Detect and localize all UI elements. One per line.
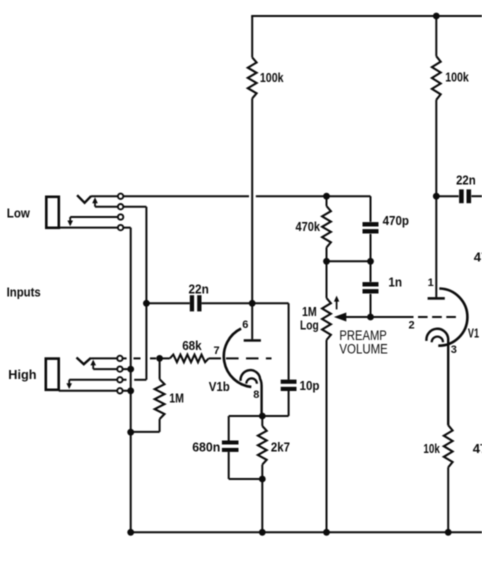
tube V1b plate (244, 303, 261, 341)
svg-text:470n: 470n (473, 441, 482, 456)
pin 3 label V1 cathode (451, 344, 457, 356)
potentiometer VR 1M Log (300, 261, 331, 532)
label V1 (468, 326, 479, 341)
svg-text:22n: 22n (189, 282, 209, 297)
svg-text:Log: Log (300, 318, 319, 333)
label V1b (209, 379, 230, 394)
wire 22n to 10p branch (252, 302, 288, 304)
pin 6 label V1b plate (242, 319, 248, 331)
capacitor C 10p (281, 303, 320, 416)
svg-text:1: 1 (428, 277, 434, 289)
svg-text:VOLUME: VOLUME (339, 342, 387, 357)
svg-text:Low: Low (7, 205, 31, 220)
node tone mid left (323, 258, 330, 265)
wire top HT rail (251, 15, 482, 17)
node ground-High ring (127, 366, 134, 373)
jack J2 switch arrow up (90, 360, 96, 370)
capacitor C 680n (cathode bypass) (192, 416, 262, 479)
svg-text:Inputs: Inputs (7, 285, 41, 300)
svg-text:470k: 470k (474, 250, 482, 265)
node grid junction (156, 355, 163, 362)
node ground-High sleeve (127, 387, 134, 394)
node 10k ground rail (445, 529, 452, 536)
wire cathode to ground (261, 479, 263, 532)
tube V1 envelope (438, 289, 467, 346)
terminal J1 ring (118, 204, 123, 209)
capacitor C 470p (363, 196, 410, 261)
svg-text:22n: 22n (456, 173, 476, 188)
terminal J2 ring (117, 366, 122, 371)
svg-text:3: 3 (451, 344, 457, 356)
tube V1b envelope (224, 329, 251, 387)
svg-text:V1: V1 (468, 326, 479, 341)
resistor R 10k (V1 cathode) (423, 425, 452, 532)
svg-text:68k: 68k (182, 338, 202, 353)
node HT junction (433, 13, 440, 20)
wire J1 contact3 lead (70, 216, 118, 218)
tube V1b cathode (241, 370, 262, 416)
node ground-1M return (127, 429, 134, 436)
wire J1 sleeve lead (59, 227, 131, 229)
label 470n clipped (473, 441, 482, 456)
tube V1 cathode (426, 329, 448, 425)
label Low (7, 205, 31, 220)
svg-text:470p: 470p (383, 213, 409, 228)
svg-text:High: High (8, 367, 36, 382)
node cathode ground rail (259, 529, 266, 536)
jack J2 High body (46, 359, 59, 390)
wire dashed High tip link (123, 357, 156, 359)
node tone mid right (367, 258, 374, 265)
terminal J2 sleeve (117, 388, 122, 393)
jack J1 Low body (46, 197, 59, 228)
node 470k top (323, 193, 330, 200)
resistor R 2k7 (cathode bias) (258, 416, 290, 479)
capacitor C 22n (left coupling) (146, 282, 252, 312)
label 470k clipped (474, 250, 482, 265)
terminal J1 sleeve (118, 225, 123, 230)
svg-text:100k: 100k (260, 70, 284, 85)
label VOLUME (339, 342, 387, 357)
wire J2 sleeve lead (59, 390, 131, 392)
svg-text:100k: 100k (445, 70, 469, 85)
jack J1 tip contact (77, 195, 91, 203)
resistor R 100k (left anode load) (248, 16, 284, 303)
node wiper-1n junction (367, 314, 374, 321)
jack J2 switch arrow down (66, 380, 72, 389)
wire ground bus (130, 228, 132, 533)
wire J2 ring lead (93, 368, 131, 370)
label Inputs (7, 285, 41, 300)
svg-text:6: 6 (242, 319, 248, 331)
terminal J1 tip (118, 194, 123, 199)
wire tone mid link (327, 260, 371, 262)
wire J1 tip lead (91, 195, 118, 197)
resistor R 100k (right anode load) (432, 16, 470, 196)
node ground-bottom rail (127, 529, 134, 536)
tube V1 plate (428, 196, 445, 300)
potentiometer wiper arrow (334, 313, 414, 322)
jack J1 switch arrow up (92, 197, 98, 206)
wire V1 grid dashes (418, 316, 456, 318)
tube V1b grid dashes (226, 357, 272, 359)
pin 1 label V1 plate (428, 277, 434, 289)
wire J1 ring lead (95, 206, 146, 208)
node pot ground rail (323, 529, 330, 536)
resistor R 470k (296, 196, 331, 261)
node V1 anode junction (433, 193, 440, 200)
svg-text:10k: 10k (423, 441, 440, 456)
resistor R 68k (grid stopper) (160, 338, 221, 362)
pin 2 label V1 grid (409, 320, 415, 332)
svg-text:8: 8 (253, 389, 259, 401)
capacitor C 22n (right coupling) (436, 173, 482, 204)
resistor R 1M (input grid leak) (131, 358, 184, 432)
svg-text:10p: 10p (300, 378, 320, 393)
svg-text:1n: 1n (388, 274, 402, 289)
svg-text:V1b: V1b (209, 379, 230, 394)
jack J1 switch arrow down (67, 217, 73, 226)
pin 7 label V1b grid (214, 345, 220, 357)
svg-text:2: 2 (409, 320, 415, 332)
wire ring bus (145, 207, 147, 380)
wire J2 contact3 lead (69, 379, 146, 381)
terminal J2 tip (117, 356, 122, 361)
svg-text:2k7: 2k7 (271, 440, 290, 455)
pin 8 label V1b cathode (253, 389, 259, 401)
svg-text:680n: 680n (192, 440, 220, 455)
svg-text:7: 7 (214, 345, 220, 357)
wire J2 tip lead (91, 357, 118, 359)
wire cathode node (229, 415, 289, 417)
node ring-22n wire (143, 300, 150, 307)
svg-text:PREAMP: PREAMP (339, 328, 386, 343)
node anode junction V1b (249, 300, 256, 307)
terminal J2 contact3 (117, 377, 122, 382)
label PREAMP (339, 328, 386, 343)
node cathode bottom junction (259, 476, 266, 483)
terminal J1 contact3 (118, 214, 123, 219)
node cathode junction (259, 413, 266, 420)
label High (8, 367, 36, 382)
wire Low tip to tone network (123, 195, 370, 197)
capacitor C 1n (363, 261, 403, 317)
jack J2 tip contact (77, 358, 91, 365)
svg-text:470k: 470k (296, 219, 321, 234)
svg-text:1M: 1M (169, 390, 184, 405)
wire bottom ground rail (131, 531, 482, 533)
potentiometer rotation arrow (334, 296, 339, 310)
